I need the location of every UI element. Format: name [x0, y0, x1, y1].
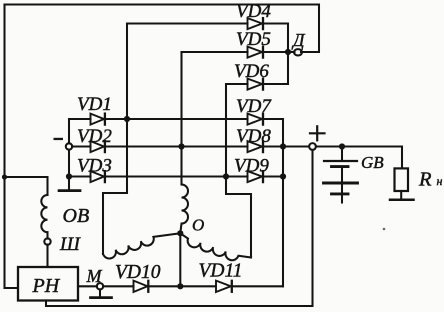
wire row VD5 [182, 51, 248, 53]
wire row VD4 [127, 22, 248, 24]
wire row VD1/VD7 [69, 118, 91, 120]
battery GB [341, 147, 343, 161]
plus sign [310, 132, 325, 134]
diode VD9 [248, 171, 263, 182]
wire row VD6 [226, 83, 248, 85]
node plus bus row3 [280, 173, 286, 179]
wire border to OB winding [5, 177, 48, 195]
svg-text:VD8: VD8 [236, 126, 271, 147]
terminal plus [309, 143, 316, 150]
node plus bus row2 [280, 143, 286, 149]
wire Д bus VD4-VD6 cathodes [287, 24, 289, 85]
node junction on left border [2, 174, 7, 179]
wire plus to GB and Rn [316, 147, 402, 169]
svg-text:Д: Д [291, 30, 306, 50]
resistor Rn [395, 168, 409, 191]
stator winding phase A [103, 233, 180, 258]
diode VD4 [248, 18, 263, 29]
node phase C row3 [223, 173, 229, 179]
wire left border down to PH box [5, 5, 19, 289]
ground under minus bus [68, 177, 70, 190]
svg-text:GB: GB [361, 153, 384, 172]
stator winding phase B [180, 185, 188, 234]
diode VD7 [248, 114, 263, 125]
diode VD3 [91, 171, 105, 182]
node O [177, 230, 183, 236]
svg-text:VD7: VD7 [236, 96, 272, 117]
diode VD1 [91, 114, 105, 125]
svg-text:VD10: VD10 [115, 262, 161, 283]
diode VD8 [248, 141, 263, 152]
wire PH right to М [78, 285, 97, 287]
wire phase C bus [226, 84, 251, 258]
noise speck [383, 228, 386, 231]
svg-text:М: М [86, 266, 103, 286]
svg-text:VD11: VD11 [199, 261, 243, 282]
node phase B row2 [178, 143, 184, 149]
wire plus bus VD7-VD9-VD11 cathodes [282, 119, 284, 286]
wire Ш to PH [46, 245, 48, 267]
svg-text:VD9: VD9 [234, 156, 269, 177]
svg-text:VD2: VD2 [77, 126, 112, 147]
node phase A row1 [124, 116, 130, 122]
svg-text:О: О [192, 216, 204, 235]
terminal Ш [44, 238, 50, 244]
minus label [54, 138, 64, 140]
diode VD11 [216, 281, 231, 292]
svg-text:РН: РН [32, 275, 61, 297]
diode VD2 [91, 141, 105, 152]
svg-text:VD4: VD4 [236, 1, 271, 22]
svg-text:VD6: VD6 [234, 61, 269, 82]
svg-text:VD5: VD5 [236, 29, 271, 50]
wire phase B bus [180, 52, 182, 184]
wire М to VD10 [103, 285, 134, 287]
terminal minus [66, 143, 72, 149]
wire row VD2/VD8 [72, 145, 91, 147]
wire VD11 to plus bus [232, 285, 283, 287]
inductor OB [41, 195, 47, 232]
wire phase A bus [103, 24, 127, 255]
node GB tap [339, 143, 345, 149]
ground under М [99, 289, 101, 296]
svg-text:VD3: VD3 [77, 156, 112, 177]
node junction VD10/VD11 [177, 283, 183, 289]
wire row VD3/VD9 [69, 175, 91, 177]
terminal М [97, 283, 103, 289]
node Д bus tap [285, 49, 291, 55]
wire VD10 to node O drop [149, 285, 216, 287]
node minus bottom [66, 173, 72, 179]
stator winding phase C [180, 233, 251, 260]
svg-text:R: R [418, 169, 432, 191]
wire O to VD10/VD11 junction [179, 233, 181, 286]
diode VD6 [248, 79, 263, 90]
diode VD5 [248, 47, 263, 58]
svg-text:VD1: VD1 [77, 94, 112, 115]
wire PH bottom to + rail [46, 150, 313, 306]
svg-text:ОВ: ОВ [63, 205, 90, 227]
regulator PH box [18, 267, 78, 301]
wire top rail and right drop to Д row [5, 5, 320, 53]
terminal Д [294, 49, 302, 55]
wire OB to Ш [46, 232, 48, 238]
svg-text:н: н [437, 174, 443, 188]
svg-text:Ш: Ш [59, 234, 81, 255]
wire minus bus [68, 119, 70, 144]
diode VD10 [134, 281, 148, 292]
